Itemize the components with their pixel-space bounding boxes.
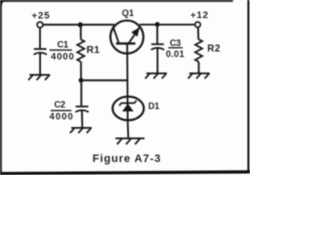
svg-text:Figure A7-3: Figure A7-3 xyxy=(92,153,161,165)
svg-text:C2: C2 xyxy=(54,100,65,110)
svg-text:Q1: Q1 xyxy=(122,8,134,18)
svg-text:+12: +12 xyxy=(190,10,209,21)
svg-text:0.01: 0.01 xyxy=(166,49,185,59)
svg-text:R2: R2 xyxy=(207,43,221,54)
svg-text:+25: +25 xyxy=(32,10,51,21)
svg-text:4000: 4000 xyxy=(51,51,75,61)
svg-text:R1: R1 xyxy=(87,45,101,56)
svg-text:4000: 4000 xyxy=(49,112,73,122)
svg-text:D1: D1 xyxy=(148,101,159,111)
svg-text:C3: C3 xyxy=(170,38,181,48)
svg-text:C1: C1 xyxy=(57,40,68,50)
